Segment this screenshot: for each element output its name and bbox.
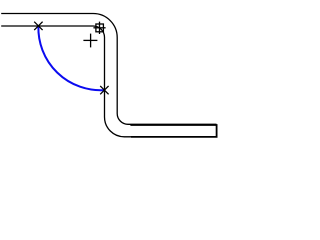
cursor crosshair through pickbox xyxy=(93,22,105,34)
fillet arc preview (blue) xyxy=(38,26,104,90)
cursor pickbox square xyxy=(96,24,104,32)
wire outer pipe outline (top line, top outer corner arc, right vertical, bottom inner corner arc, bottom top line) xyxy=(1,14,216,125)
wire selected bottom segment (thick) with end cap xyxy=(130,125,216,137)
node X1 tangent marker on horizontal line xyxy=(34,22,42,30)
node X2 tangent marker on vertical line xyxy=(100,86,108,94)
cursor offset plus marker xyxy=(83,34,97,48)
wire inner pipe outline (second line, top inner corner arc, left vertical, bottom outer corner arc, bottom line) xyxy=(1,26,216,137)
